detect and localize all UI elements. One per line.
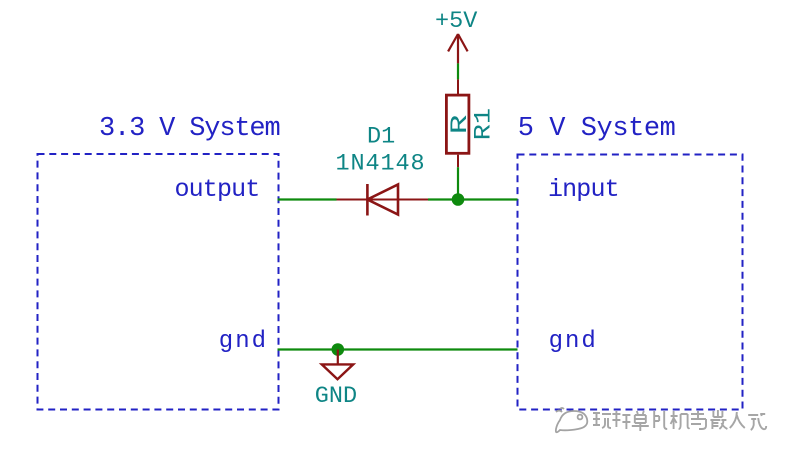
- gnd junction node: [332, 343, 345, 356]
- svg-text:gnd: gnd: [549, 328, 598, 355]
- svg-text:D1: D1: [367, 124, 395, 151]
- watermark text: [593, 410, 766, 431]
- wire output to diode: [278, 198, 337, 200]
- svg-text:3.3 V System: 3.3 V System: [99, 114, 280, 144]
- svg-text:output: output: [175, 175, 260, 204]
- diode D1 cathode bar: [366, 184, 369, 216]
- 3.3V system box: [38, 154, 279, 410]
- wire +5V to resistor: [457, 63, 459, 79]
- wire diode to junction to input: [428, 198, 518, 200]
- junction node: [452, 193, 465, 206]
- resistor R1 top pin: [457, 79, 459, 95]
- wire resistor to junction: [457, 167, 459, 199]
- resistor R1 body: [446, 95, 469, 153]
- svg-text:R1: R1: [470, 108, 497, 140]
- 5V system box: [518, 155, 743, 410]
- svg-text:input: input: [548, 175, 619, 204]
- svg-text:5 V System: 5 V System: [518, 114, 676, 144]
- svg-text:+5V: +5V: [435, 8, 477, 35]
- watermark logo: [556, 408, 587, 432]
- gnd wire: [278, 348, 518, 350]
- svg-text:GND: GND: [315, 383, 357, 410]
- +5V power symbol: [448, 34, 468, 63]
- resistor R1 bottom pin: [457, 155, 459, 168]
- diode D1 pin wires: [337, 199, 429, 201]
- GND symbol stem: [337, 350, 339, 365]
- svg-text:1N4148: 1N4148: [336, 151, 426, 178]
- svg-text:gnd: gnd: [219, 328, 268, 355]
- GND symbol triangle: [322, 364, 353, 379]
- diode D1 triangle: [367, 185, 398, 215]
